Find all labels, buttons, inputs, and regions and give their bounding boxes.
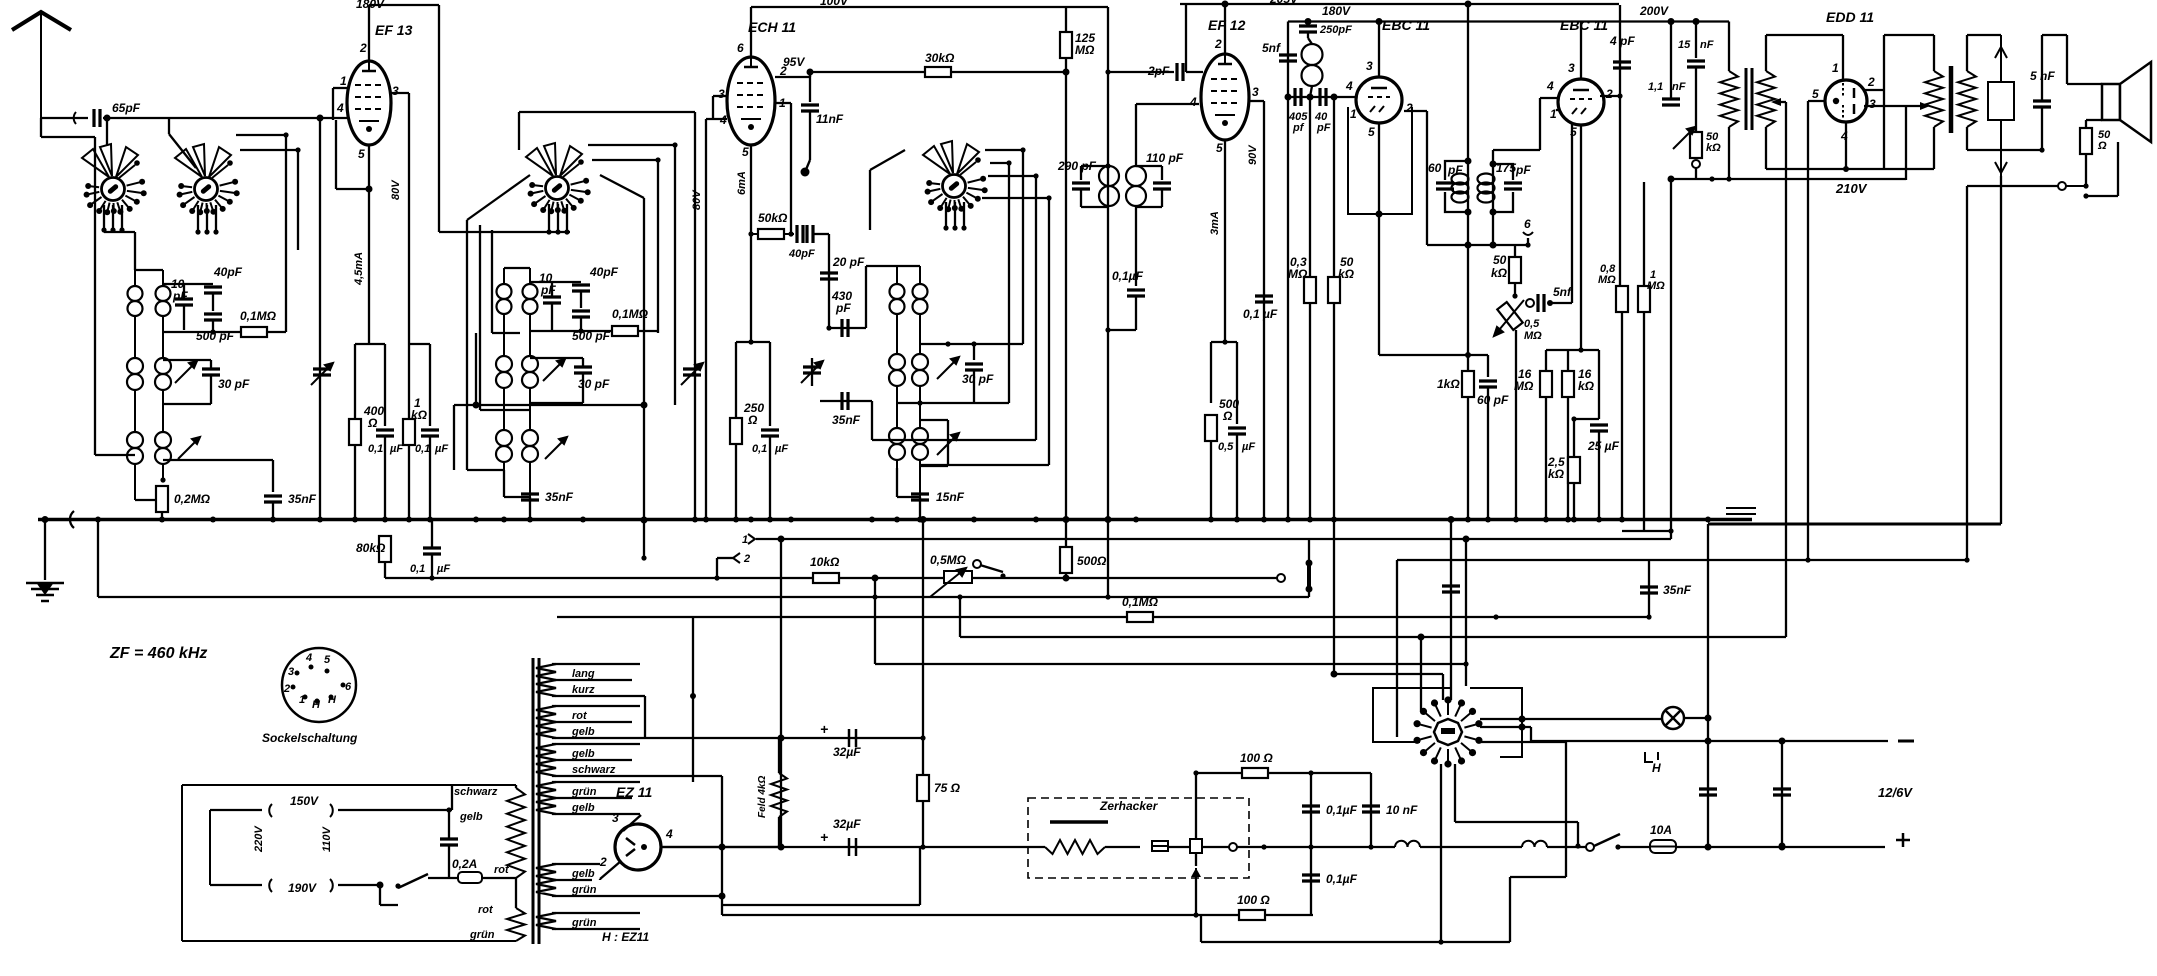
junction — [1105, 516, 1112, 523]
svg-text:1: 1 — [299, 694, 305, 706]
wire — [1571, 110, 1573, 303]
wire — [1211, 341, 1237, 343]
wire — [1695, 168, 1697, 179]
wire — [379, 885, 381, 905]
pot contact — [1692, 160, 1700, 168]
junction — [778, 536, 785, 543]
junction — [1512, 293, 1517, 298]
wire osc feed — [643, 198, 645, 558]
winding — [1958, 71, 1976, 127]
variable cap arrow — [681, 363, 703, 385]
svg-text:4: 4 — [1546, 79, 1554, 93]
resistor 250 Ω — [730, 418, 742, 444]
junction — [1463, 661, 1468, 666]
svg-text:4: 4 — [665, 827, 673, 841]
resistor 50 kΩ — [1509, 257, 1521, 283]
wire — [1236, 342, 1238, 424]
wire — [431, 520, 433, 549]
capacitor 1.1nF — [1662, 99, 1680, 105]
wire S3 contact — [988, 175, 1036, 177]
wire — [722, 904, 920, 906]
svg-text:gelb: gelb — [571, 726, 595, 738]
svg-text:12/6V: 12/6V — [1878, 785, 1913, 800]
svg-text:150V: 150V — [290, 794, 319, 808]
junction — [1285, 94, 1292, 101]
wire — [1707, 524, 1709, 846]
junction — [1261, 844, 1266, 849]
svg-text:H : EZ11: H : EZ11 — [602, 930, 649, 944]
variable trimmer arrow — [543, 359, 565, 381]
junction — [920, 516, 927, 523]
choke — [1395, 841, 1420, 847]
junction — [1705, 844, 1712, 851]
tube EF13 — [347, 61, 391, 145]
tube EF12 — [1201, 54, 1249, 140]
wire — [530, 330, 612, 332]
svg-text:pF: pF — [835, 301, 851, 315]
wire — [805, 160, 810, 172]
field coil with arrows — [1988, 35, 2014, 176]
wire — [920, 465, 948, 467]
wire — [169, 134, 196, 168]
bus junction — [894, 517, 900, 523]
svg-text:40pF: 40pF — [213, 265, 243, 279]
wire — [1310, 86, 1312, 97]
capacitor 65pF — [94, 109, 100, 127]
bus junction — [1619, 517, 1625, 523]
wire 4pF line — [1619, 5, 1621, 290]
svg-text:grün: grün — [571, 917, 597, 929]
wire pin3 — [1249, 100, 1264, 102]
wire grid EF12 — [1135, 104, 1137, 166]
junction — [1646, 614, 1651, 619]
fuse 0.2A — [458, 872, 482, 883]
junction — [1465, 242, 1472, 249]
wire speaker top — [2067, 83, 2102, 85]
svg-text:kΩ: kΩ — [1706, 142, 1721, 154]
svg-text:pF: pF — [540, 283, 556, 297]
wire — [717, 557, 733, 559]
coil L1a — [128, 286, 143, 316]
secondary winding — [536, 782, 556, 814]
bus junction — [748, 517, 754, 523]
capacitor 11nF — [801, 105, 819, 111]
wire — [338, 884, 380, 886]
svg-text:65pF: 65pF — [112, 101, 141, 115]
wire to band switch — [1396, 560, 1398, 737]
svg-text:35nF: 35nF — [288, 492, 317, 506]
svg-text:kurz: kurz — [572, 684, 595, 696]
junction — [872, 575, 879, 582]
svg-text:kΩ: kΩ — [1578, 379, 1595, 393]
capacitor 32uF — [849, 838, 856, 856]
svg-text:2: 2 — [283, 683, 290, 695]
wire — [874, 578, 876, 597]
bus junction — [1133, 517, 1139, 523]
capacitor 60pF bracket — [1445, 161, 1468, 212]
svg-text:EF 13: EF 13 — [375, 22, 413, 38]
wire nest diagonal — [467, 175, 530, 220]
junction — [1805, 557, 1810, 562]
svg-text:EDD 11: EDD 11 — [1826, 9, 1874, 25]
wire — [1966, 127, 1968, 150]
svg-text:Zerhacker: Zerhacker — [1099, 799, 1159, 813]
svg-text:EF 12: EF 12 — [1208, 17, 1246, 33]
wire — [897, 402, 1009, 404]
switch pole wire — [945, 202, 947, 228]
wire — [134, 232, 136, 270]
wire — [657, 160, 659, 333]
svg-text:MΩ: MΩ — [1524, 330, 1542, 342]
wire winding rail — [552, 813, 640, 815]
svg-text:3: 3 — [1568, 61, 1575, 75]
svg-text:1: 1 — [1550, 107, 1557, 121]
wire — [1547, 846, 1586, 848]
wire diode line 2 — [1333, 97, 1335, 277]
winding arrow — [1771, 98, 1781, 106]
svg-text:MΩ: MΩ — [1514, 379, 1534, 393]
svg-text:MΩ: MΩ — [1647, 280, 1665, 292]
svg-text:60: 60 — [1428, 161, 1442, 175]
svg-text:H: H — [328, 694, 337, 706]
svg-text:80V: 80V — [691, 189, 703, 210]
tube EDD11 — [1825, 80, 1867, 122]
resistor 30 kΩ — [925, 67, 951, 77]
svg-text:MΩ: MΩ — [1288, 267, 1308, 281]
resistor 16 kΩ — [1562, 371, 1574, 397]
bus junction — [1543, 517, 1549, 523]
wire S2 contact — [592, 159, 658, 161]
junction — [2083, 193, 2088, 198]
transformer core — [532, 658, 535, 944]
wire — [454, 404, 644, 406]
svg-text:schwarz: schwarz — [454, 786, 498, 798]
wire pin3 — [1580, 22, 1582, 80]
vibrator contact bar — [1050, 820, 1108, 824]
capacitor 250pF — [1299, 26, 1317, 32]
vibrator reed — [1190, 839, 1202, 853]
svg-text:20 pF: 20 pF — [832, 255, 865, 269]
svg-text:205V: 205V — [1269, 0, 1299, 6]
svg-text:32µF: 32µF — [833, 745, 861, 759]
svg-text:0,5: 0,5 — [1524, 318, 1540, 330]
wire coil top — [135, 269, 163, 271]
tap arrow — [330, 804, 333, 817]
junction — [748, 339, 753, 344]
pin 6 fork — [1523, 232, 1533, 235]
junction — [719, 844, 726, 851]
band switch S4 contacts — [1415, 697, 1482, 766]
wire — [869, 170, 871, 230]
wire pin5 — [1808, 100, 1825, 102]
junction — [42, 516, 49, 523]
wire S1 frame left — [94, 168, 96, 455]
capacitor 10nF — [1362, 806, 1380, 812]
junction — [1331, 94, 1338, 101]
wire — [582, 373, 584, 403]
svg-text:190V: 190V — [288, 881, 317, 895]
wire — [1480, 726, 1531, 728]
capacitor 40pF — [572, 285, 590, 291]
junction — [1465, 1, 1472, 8]
wire — [336, 188, 369, 190]
coil L3b — [155, 432, 171, 464]
Zerhacker dashed box — [1028, 798, 1249, 878]
wire B+ lead — [1237, 846, 1395, 848]
capacitor tuning — [313, 369, 331, 375]
svg-text:2pF: 2pF — [1147, 64, 1170, 78]
wire — [1766, 34, 1843, 36]
wire — [1933, 35, 1935, 71]
capacitor 60pF — [1479, 381, 1497, 387]
wire to EBC2 grid — [1540, 97, 1557, 99]
junction — [641, 517, 648, 524]
wire — [580, 291, 582, 308]
junction — [1465, 209, 1472, 216]
chassis bus — [38, 518, 1752, 522]
svg-text:290 pF: 290 pF — [1057, 159, 1097, 173]
wire — [1308, 38, 1312, 44]
junction — [641, 555, 646, 560]
svg-text:0,1: 0,1 — [752, 443, 767, 455]
svg-text:100 Ω: 100 Ω — [1237, 893, 1270, 907]
svg-text:EBC 11: EBC 11 — [1382, 17, 1430, 33]
wire — [1442, 674, 1444, 700]
wire — [183, 305, 185, 330]
svg-text:1: 1 — [742, 534, 748, 546]
wire S2 top to ECH11 — [519, 111, 695, 113]
svg-text:µF: µF — [434, 443, 448, 455]
capacitor 0.1 uF — [761, 430, 779, 436]
wire — [1695, 67, 1697, 132]
wire — [210, 375, 212, 404]
svg-text:6: 6 — [345, 681, 352, 693]
wire — [829, 327, 866, 329]
wire — [515, 785, 517, 788]
wire winding rail — [552, 775, 700, 777]
bus junction — [1208, 517, 1214, 523]
diode load box — [1348, 107, 1412, 214]
wire — [448, 845, 450, 878]
wire — [1307, 32, 1309, 38]
wire coil top — [504, 267, 530, 269]
wire to S1 left — [94, 137, 96, 168]
wire — [638, 330, 658, 332]
svg-text:200V: 200V — [1639, 4, 1669, 18]
svg-text:2: 2 — [1867, 75, 1875, 89]
svg-text:5nf: 5nf — [1553, 285, 1572, 299]
wire coil top — [897, 265, 920, 267]
capacitor 40pF — [1320, 88, 1326, 106]
wire — [1577, 822, 1579, 846]
wire — [1728, 22, 1730, 72]
svg-text:3: 3 — [1366, 59, 1373, 73]
capacitor mains — [440, 839, 458, 845]
wire — [980, 565, 1003, 572]
coil osc3a — [889, 428, 905, 460]
potentiometer 50 kΩ — [1690, 132, 1702, 158]
wire — [475, 333, 477, 405]
winding — [1925, 71, 1943, 127]
wire — [384, 436, 386, 520]
capacitor 500pF trimmer — [204, 314, 222, 320]
bus junction — [427, 517, 433, 523]
wire — [2085, 120, 2087, 128]
wire — [871, 401, 873, 440]
wire filter line — [640, 737, 923, 739]
wire — [809, 72, 811, 77]
wire — [1574, 418, 1599, 420]
switch contact — [2058, 182, 2066, 190]
wire EDD11 pin1 — [1842, 35, 1844, 79]
coil L2a — [127, 358, 143, 390]
variable cap arrow — [801, 361, 823, 383]
choke — [1522, 841, 1547, 847]
wire — [1573, 483, 1575, 520]
switch blade — [1594, 834, 1620, 846]
wire cathode — [1224, 140, 1226, 342]
svg-text:6mA: 6mA — [736, 171, 748, 195]
wire winding rail — [552, 912, 640, 914]
wire — [814, 233, 829, 235]
wire — [1080, 166, 1082, 180]
bus junction — [692, 517, 698, 523]
wire — [1933, 127, 1935, 169]
wire pin2 — [1600, 95, 1620, 97]
wire — [1493, 149, 1540, 151]
wire 50k grid leak run — [751, 233, 794, 235]
transformer Tr2 core — [1949, 66, 1954, 133]
svg-text:1: 1 — [340, 74, 347, 88]
wire — [1370, 773, 1372, 847]
coil T4 secondary — [1478, 174, 1495, 203]
junction — [204, 229, 209, 234]
wire — [429, 436, 431, 520]
wire — [384, 556, 386, 578]
junction — [1063, 69, 1070, 76]
wire — [515, 878, 517, 908]
wire B+ return — [1708, 523, 2001, 526]
svg-text:10kΩ: 10kΩ — [810, 555, 840, 569]
junction — [1575, 843, 1580, 848]
junction — [1693, 18, 1700, 25]
svg-text:MΩ: MΩ — [1075, 43, 1095, 57]
svg-text:Feld 4kΩ: Feld 4kΩ — [757, 776, 768, 818]
resistor 0.2 MΩ — [156, 486, 168, 512]
capacitor 5nF — [1538, 294, 1544, 312]
bus junction — [352, 517, 358, 523]
wire T4 bottom bus — [1427, 244, 1530, 246]
wire line 3 — [98, 596, 1309, 598]
junction — [1000, 573, 1005, 578]
wire — [974, 343, 1023, 345]
resistor 100 Ω — [1242, 768, 1268, 778]
wire — [874, 597, 876, 664]
coil osc2a — [889, 354, 905, 386]
speaker switch — [2066, 185, 2086, 187]
antenna — [12, 12, 71, 118]
svg-text:100 Ω: 100 Ω — [1240, 751, 1273, 765]
junction — [1308, 770, 1313, 775]
band switch S1b — [175, 144, 240, 215]
coil L1b — [156, 286, 171, 316]
wire — [1420, 637, 1422, 712]
variable cap arrow — [311, 363, 333, 385]
svg-text:Ω: Ω — [2097, 140, 2107, 152]
capacitor 15nF — [911, 494, 929, 500]
wire — [644, 696, 646, 738]
ground symbol — [26, 583, 64, 601]
coil osc3b — [912, 428, 928, 460]
wire — [640, 695, 645, 697]
junction — [641, 402, 648, 409]
wire — [380, 904, 398, 906]
coil osc pickup — [1302, 44, 1323, 86]
svg-text:0,1MΩ: 0,1MΩ — [1122, 595, 1159, 609]
junction — [719, 893, 726, 900]
wire winding rail — [552, 797, 632, 799]
capacitor 430pF — [842, 319, 848, 337]
wire secondary tap — [1779, 101, 1786, 103]
wire — [920, 464, 1049, 466]
wire — [1765, 35, 1767, 71]
wire S3 contact — [982, 197, 1049, 199]
wire — [1487, 355, 1489, 377]
wire — [922, 520, 924, 776]
wire pin3 — [391, 92, 409, 94]
capacitor tuning — [803, 367, 821, 373]
wire — [354, 445, 356, 520]
bus junction — [382, 517, 388, 523]
svg-text:4: 4 — [305, 652, 312, 664]
wire — [919, 847, 921, 905]
wire T3 bottom — [1081, 206, 1109, 208]
wire — [1168, 846, 1190, 848]
wire — [1695, 22, 1697, 59]
wire — [1676, 846, 1885, 848]
bus junction — [1513, 517, 1519, 523]
wire S3 contact — [990, 162, 1009, 164]
wire — [872, 439, 1036, 441]
svg-text:95V: 95V — [783, 55, 805, 69]
svg-text:100V: 100V — [820, 0, 849, 8]
wire — [599, 879, 601, 880]
junction — [1193, 770, 1198, 775]
wire — [820, 400, 872, 402]
svg-text:4: 4 — [1345, 79, 1353, 93]
wire — [409, 343, 430, 345]
variable trimmer arrow — [937, 357, 959, 379]
svg-text:3: 3 — [612, 811, 619, 825]
svg-text:5: 5 — [1570, 125, 1577, 139]
wire ECH11 grid return — [694, 112, 696, 520]
svg-text:0,5: 0,5 — [1218, 441, 1234, 453]
wire — [1967, 34, 2001, 36]
wire winding rail — [552, 695, 640, 697]
wire — [1530, 727, 1532, 741]
junction — [807, 69, 814, 76]
wire grid to pin4 — [320, 117, 347, 119]
wire S1b top feed — [168, 118, 170, 134]
wire — [297, 150, 299, 250]
junction — [195, 229, 200, 234]
wire — [1618, 846, 1650, 848]
resistor 1 MΩ — [1638, 286, 1650, 312]
svg-text:5: 5 — [1216, 141, 1223, 155]
bus junction — [473, 517, 479, 523]
wire — [865, 266, 867, 328]
pot wiper contact — [1526, 299, 1534, 307]
